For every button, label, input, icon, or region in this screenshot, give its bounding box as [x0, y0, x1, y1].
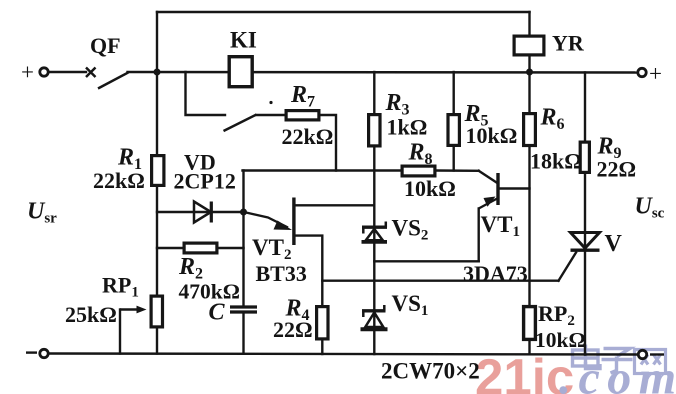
svg-text:1kΩ: 1kΩ	[387, 115, 428, 140]
wire left vertical mid	[156, 186, 158, 296]
svg-text:22Ω: 22Ω	[597, 157, 637, 182]
svg-text:BT33: BT33	[256, 261, 307, 286]
svg-text:10kΩ: 10kΩ	[466, 123, 518, 148]
wire emitter to VS2 net	[374, 260, 478, 262]
minus lead right	[650, 353, 664, 355]
contact KI (normally open)	[224, 115, 257, 132]
node YR junction	[526, 69, 533, 76]
wire terminal to switch	[49, 71, 87, 73]
resistor R3	[369, 115, 380, 146]
svg-text:25kΩ: 25kΩ	[65, 302, 117, 327]
svg-text:KI: KI	[230, 28, 257, 53]
wire R6 branch	[528, 72, 530, 113]
wire YR to rail	[528, 55, 530, 72]
switch QF	[86, 68, 129, 89]
wire base slant VT1	[479, 171, 497, 183]
resistor R8	[402, 166, 435, 176]
thyristor V	[571, 233, 600, 251]
watermark wang	[635, 350, 666, 374]
svg-text:22Ω: 22Ω	[273, 317, 313, 342]
wire R9 to rail	[584, 174, 586, 355]
wire R4 to rail	[321, 341, 323, 355]
wire gate slant	[559, 253, 577, 281]
wire R5 bottom	[453, 147, 455, 171]
resistor R4	[317, 307, 328, 339]
wire top rail	[157, 11, 530, 13]
wire contact to R7	[257, 114, 286, 116]
svg-text:VS1: VS1	[392, 291, 429, 319]
svg-text:RP1: RP1	[102, 273, 139, 301]
wire R3 branch	[373, 72, 375, 114]
wire left vertical upper	[156, 12, 158, 155]
wire VT1 collector	[500, 187, 530, 189]
terminal - right	[638, 350, 646, 358]
resistor R1	[152, 156, 164, 186]
wire KI contact branch	[186, 72, 226, 115]
wire R3 bottom to rail	[373, 148, 375, 355]
watermark dian	[573, 345, 601, 369]
resistor R6	[524, 114, 536, 146]
wire R6 to RP2	[528, 147, 530, 307]
svg-text:2CP12: 2CP12	[174, 169, 236, 194]
svg-text:R2: R2	[178, 254, 203, 283]
wire left vertical lower	[156, 327, 158, 354]
wire gate net B	[322, 280, 558, 282]
wire VT2 B1	[295, 236, 322, 306]
terminal - left	[40, 349, 48, 357]
svg-text:R7: R7	[290, 82, 315, 111]
svg-text:RP2: RP2	[538, 301, 575, 329]
resistor R7	[286, 111, 319, 120]
svg-text:10kΩ: 10kΩ	[404, 176, 456, 201]
svg-text:+: +	[21, 60, 34, 85]
svg-text:R8: R8	[408, 140, 433, 169]
svg-text:VT1: VT1	[481, 212, 520, 240]
wire VT1 emitter vertical	[478, 209, 480, 262]
wire VT2 B2	[295, 204, 374, 206]
svg-text:2CW70×2: 2CW70×2	[381, 359, 480, 384]
wire R9 branch	[584, 73, 586, 142]
watermark zi	[602, 349, 633, 374]
svg-text:+: +	[649, 61, 662, 86]
potentiometer RP1	[120, 296, 163, 327]
svg-text:C: C	[209, 300, 226, 326]
wire net170 right	[436, 169, 479, 172]
svg-text:18kΩ: 18kΩ	[530, 149, 582, 174]
relay KI	[229, 57, 252, 87]
wire RP1 wiper drop	[119, 310, 121, 354]
svg-text:22kΩ: 22kΩ	[93, 168, 145, 193]
svg-text:22kΩ: 22kΩ	[282, 124, 334, 149]
transistor VT1 (3DA73)	[479, 173, 500, 209]
zener VS1	[361, 305, 388, 329]
wire node vertical	[242, 171, 244, 306]
wire bottom rail	[49, 354, 639, 355]
resistor R5	[448, 115, 459, 146]
capacitor C	[230, 307, 257, 312]
svg-text:VS2: VS2	[392, 216, 429, 244]
svg-text:VT2: VT2	[252, 235, 291, 263]
node VD junction	[240, 209, 247, 216]
relay YR	[514, 36, 544, 55]
diode VD	[194, 202, 211, 223]
wire VD branch	[157, 211, 244, 213]
wire rail2 segment	[128, 71, 638, 74]
svg-text:YR: YR	[552, 31, 585, 56]
svg-text:10kΩ: 10kΩ	[535, 328, 586, 352]
wire R7 to net	[320, 115, 337, 171]
svg-text:.com: .com	[559, 352, 676, 394]
svg-text:V: V	[605, 231, 623, 257]
transistor VT2 (BT33 UJT)	[246, 198, 296, 246]
terminal + right	[638, 68, 646, 76]
minus lead left	[26, 351, 37, 353]
node QF junction	[154, 69, 161, 76]
svg-text:Usr: Usr	[27, 199, 57, 227]
wire R2 left	[157, 247, 184, 249]
resistor R2	[184, 243, 217, 253]
svg-text:3DA73: 3DA73	[463, 261, 528, 286]
wire R5 branch	[453, 72, 455, 114]
resistor R9	[580, 142, 589, 172]
wire cap to rail	[242, 313, 244, 354]
terminal + left	[40, 68, 48, 76]
wire R2 right	[219, 247, 244, 249]
wire net170 left	[243, 169, 402, 171]
svg-text:QF: QF	[90, 33, 121, 58]
svg-text:Usc: Usc	[635, 194, 665, 222]
zener VS2	[362, 222, 388, 242]
wire RP2 to rail	[528, 340, 530, 354]
potentiometer RP2	[524, 307, 536, 340]
node speck	[269, 101, 272, 104]
wire right vertical to YR	[528, 12, 530, 36]
svg-text:R6: R6	[540, 105, 565, 134]
